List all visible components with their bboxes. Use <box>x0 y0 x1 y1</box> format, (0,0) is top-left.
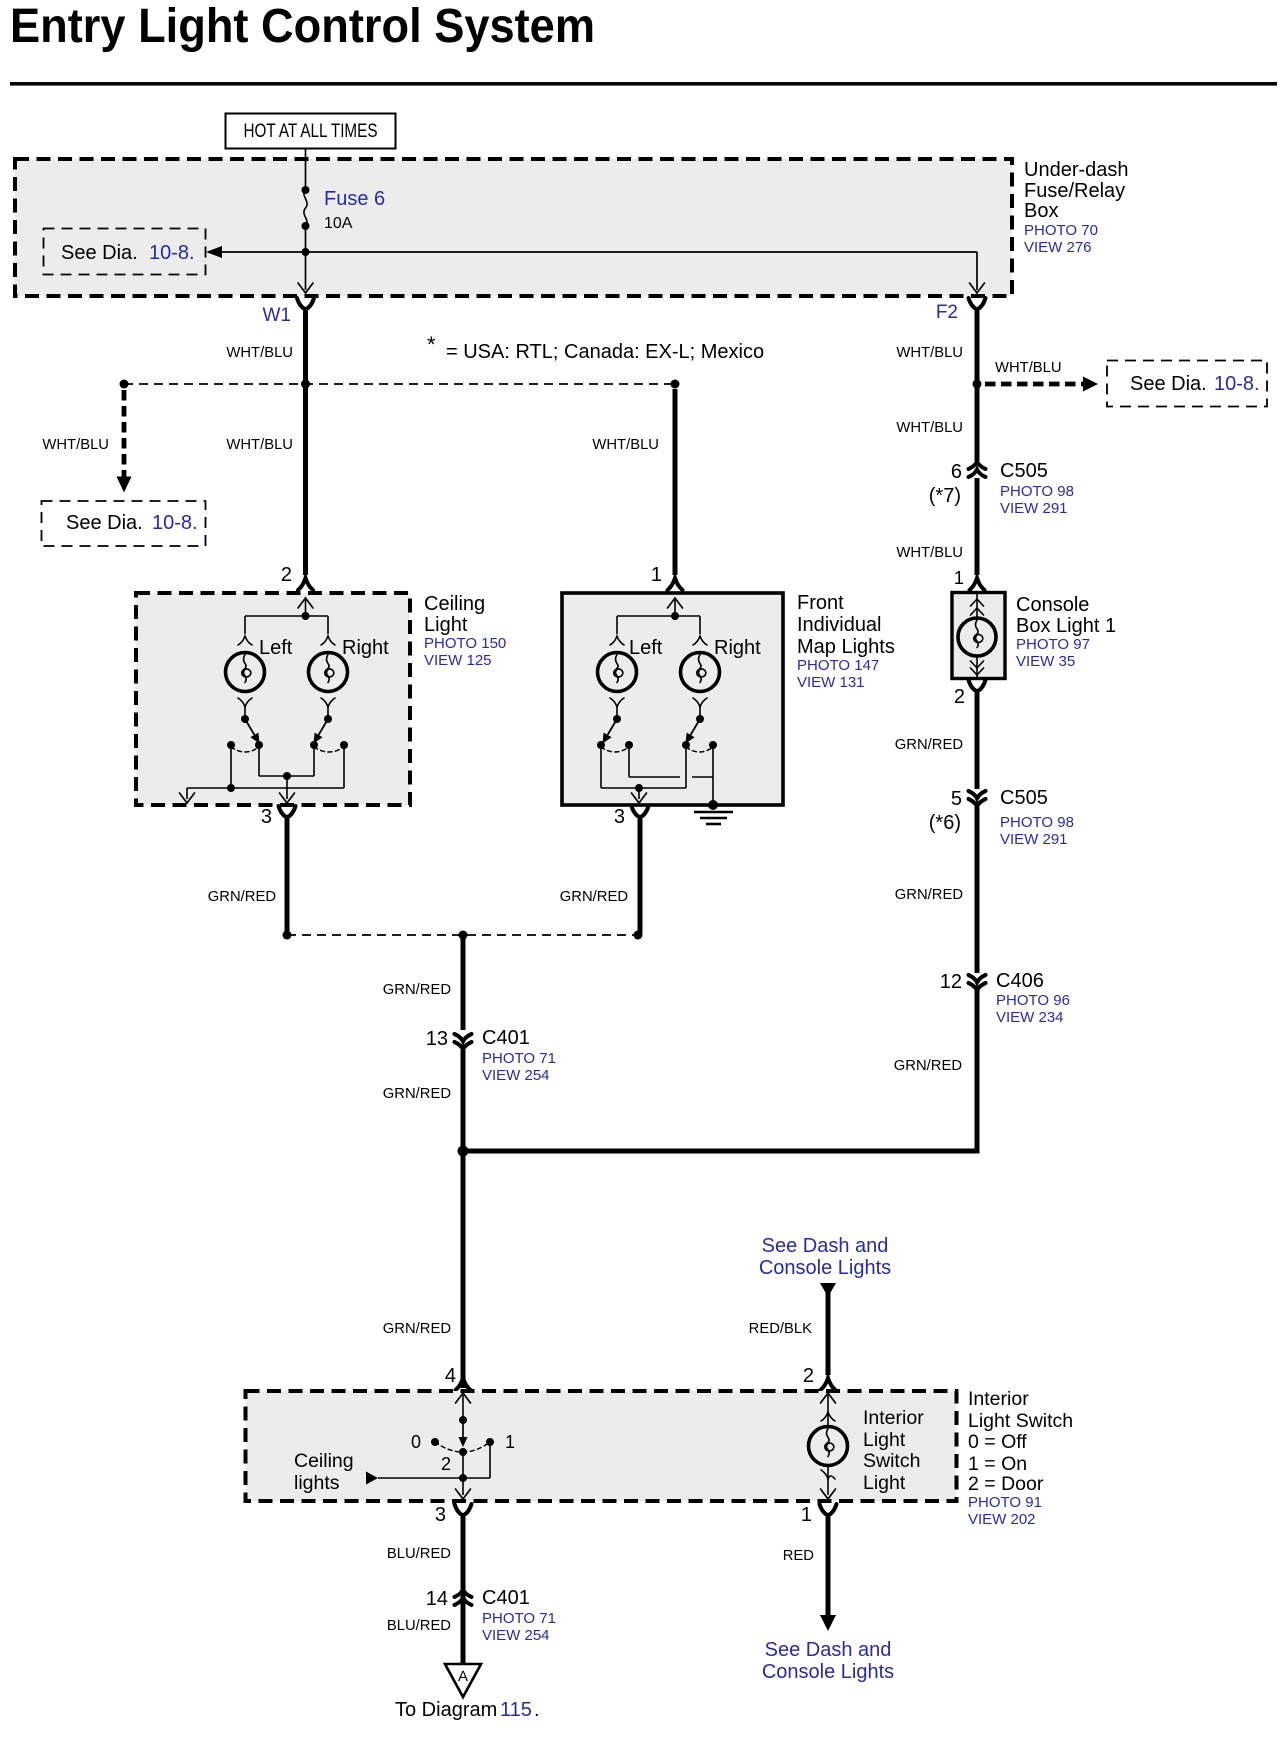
svg-text:Map Lights: Map Lights <box>797 636 895 658</box>
wire F2 to C505 WHT/BLU <box>975 311 980 461</box>
svg-text:C401: C401 <box>482 1587 530 1609</box>
svg-text:A: A <box>458 1668 468 1685</box>
wire C401 to main junction GRN/RED <box>461 1050 466 1388</box>
bulb ceiling left <box>226 653 265 692</box>
svg-text:VIEW 202: VIEW 202 <box>968 1511 1036 1528</box>
title rule <box>10 82 1277 86</box>
connector C406 pin 12 <box>969 975 986 983</box>
bulb console box light <box>958 618 996 656</box>
svg-text:C505: C505 <box>1000 460 1048 482</box>
svg-text:C406: C406 <box>996 970 1044 992</box>
svg-text:1: 1 <box>651 564 662 586</box>
switch contact 0 <box>431 1438 439 1446</box>
svg-text:C505: C505 <box>1000 787 1048 809</box>
svg-text:(*7): (*7) <box>929 485 961 507</box>
svg-text:PHOTO 96: PHOTO 96 <box>996 992 1070 1009</box>
dashed wire to See Dia 10-8 (lower left) <box>122 390 127 477</box>
svg-text:VIEW 125: VIEW 125 <box>424 652 492 669</box>
svg-text:10-8.: 10-8. <box>149 242 195 264</box>
svg-text:WHT/BLU: WHT/BLU <box>995 360 1062 376</box>
dashed junction line <box>124 383 675 385</box>
switch contact 1 <box>486 1438 494 1446</box>
svg-text:Right: Right <box>342 637 389 659</box>
svg-text:.: . <box>534 1699 540 1721</box>
open arrow at box edge W1 <box>298 283 313 293</box>
arrow to See Dash and Console Lights <box>820 1615 836 1631</box>
node ceiling feed bus <box>302 612 310 620</box>
wire map pin 3 GRN/RED <box>638 819 643 933</box>
node map output junction <box>635 784 643 792</box>
open arrow at box edge F2 <box>970 283 985 293</box>
svg-text:1: 1 <box>801 1504 812 1526</box>
svg-text:2: 2 <box>281 564 292 586</box>
node ceiling output junction <box>283 772 291 780</box>
connector C505 pin 5 <box>969 791 986 799</box>
svg-text:Light: Light <box>863 1429 906 1451</box>
pin 2 console box light <box>969 680 986 695</box>
svg-text:WHT/BLU: WHT/BLU <box>42 437 109 453</box>
svg-text:GRN/RED: GRN/RED <box>383 1321 451 1337</box>
switch map right <box>696 715 704 723</box>
svg-text:5: 5 <box>951 788 962 810</box>
ceiling light enclosure <box>136 593 410 805</box>
svg-text:1: 1 <box>505 1432 515 1452</box>
svg-text:PHOTO 91: PHOTO 91 <box>968 1494 1042 1511</box>
wire map inner contacts to ground <box>628 745 630 777</box>
svg-text:VIEW 35: VIEW 35 <box>1016 653 1075 670</box>
svg-text:See Dash and: See Dash and <box>762 1235 889 1257</box>
wire pin 1 RED <box>826 1517 831 1616</box>
svg-text:Light Switch: Light Switch <box>968 1410 1073 1432</box>
dashed junction line ceiling/map outputs <box>287 934 638 936</box>
off-page connector A <box>445 1664 481 1697</box>
wire C505 to console box light pin 1 WHT/BLU <box>975 478 980 575</box>
svg-text:14: 14 <box>426 1588 448 1610</box>
node center output <box>459 931 468 940</box>
svg-text:10-8.: 10-8. <box>152 512 198 534</box>
wire down to F2 terminal <box>976 252 978 290</box>
wire from HOT AT ALL TIMES to fuse <box>305 149 307 188</box>
wire C406 down and left to main junction GRN/RED <box>461 990 978 1151</box>
wire contact 2 to output <box>462 1452 464 1478</box>
fuse F6 10A <box>302 186 310 194</box>
svg-text:13: 13 <box>426 1028 448 1050</box>
svg-text:See Dash and: See Dash and <box>765 1639 892 1661</box>
wire console pin2 to C505 GRN/RED <box>975 693 980 789</box>
svg-text:Interior: Interior <box>863 1407 924 1429</box>
ground map lights <box>708 800 718 810</box>
svg-text:3: 3 <box>614 806 625 828</box>
door switch ceiling right <box>324 715 332 723</box>
see-dia reference box 1 <box>44 229 206 275</box>
switch feed arrow from pin 4 <box>456 1393 471 1403</box>
svg-text:PHOTO 147: PHOTO 147 <box>797 657 879 674</box>
svg-text:VIEW 276: VIEW 276 <box>1024 239 1092 256</box>
wire junction to C401 GRN/RED <box>461 935 466 1030</box>
svg-text:See Dia.: See Dia. <box>1130 373 1207 395</box>
svg-text:GRN/RED: GRN/RED <box>383 982 451 998</box>
svg-text:VIEW 131: VIEW 131 <box>797 674 865 691</box>
node map feed bus <box>671 612 679 620</box>
svg-text:WHT/BLU: WHT/BLU <box>896 345 963 361</box>
svg-text:10A: 10A <box>324 215 353 232</box>
node left branch <box>120 380 129 389</box>
wire contact 1 to output <box>489 1442 491 1478</box>
bulb interior light switch light <box>809 1427 848 1466</box>
svg-text:GRN/RED: GRN/RED <box>383 1086 451 1102</box>
svg-text:Box Light 1: Box Light 1 <box>1016 615 1116 637</box>
wire to map lights pin 1 WHT/BLU <box>673 389 678 575</box>
door switch ceiling left <box>241 715 249 723</box>
svg-text:6: 6 <box>951 461 962 483</box>
svg-text:Fuse/Relay: Fuse/Relay <box>1024 180 1125 202</box>
svg-text:GRN/RED: GRN/RED <box>208 889 276 905</box>
connector C401 pin 14 <box>455 1590 472 1598</box>
svg-text:Individual: Individual <box>797 614 882 636</box>
svg-text:10-8.: 10-8. <box>1214 373 1260 395</box>
wire pin 3 BLU/RED <box>461 1517 466 1663</box>
wire W1 to ceiling light pin 2 WHT/BLU <box>303 311 308 575</box>
svg-text:VIEW 254: VIEW 254 <box>482 1627 550 1644</box>
svg-text:Light: Light <box>424 614 468 636</box>
svg-text:PHOTO 70: PHOTO 70 <box>1024 222 1098 239</box>
node F2 dashed junction <box>973 380 982 389</box>
svg-text:W1: W1 <box>263 305 292 326</box>
node map output <box>634 931 643 940</box>
svg-text:PHOTO 98: PHOTO 98 <box>1000 814 1074 831</box>
bulb map left <box>598 653 637 692</box>
svg-text:0: 0 <box>411 1432 421 1452</box>
see-dia reference box 3 <box>1107 361 1267 407</box>
svg-text:WHT/BLU: WHT/BLU <box>896 420 963 436</box>
svg-text:Console Lights: Console Lights <box>762 1661 894 1683</box>
console lamp wiring <box>976 594 978 618</box>
svg-text:C401: C401 <box>482 1027 530 1049</box>
svg-text:F2: F2 <box>936 302 958 323</box>
map feed arrow from pin 1 <box>668 598 683 608</box>
svg-text:GRN/RED: GRN/RED <box>895 737 963 753</box>
under-dash fuse/relay box <box>15 159 1012 296</box>
wire RED/BLK to pin 2 <box>826 1293 831 1375</box>
front individual map lights enclosure <box>562 593 783 805</box>
svg-text:0 = Off: 0 = Off <box>968 1431 1027 1453</box>
svg-text:GRN/RED: GRN/RED <box>895 887 963 903</box>
switch arc <box>435 1442 490 1452</box>
svg-text:Console: Console <box>1016 594 1089 616</box>
wire C505 to C406 GRN/RED <box>975 807 980 973</box>
svg-text:2: 2 <box>954 686 965 708</box>
svg-text:PHOTO 71: PHOTO 71 <box>482 1050 556 1067</box>
svg-text:3: 3 <box>261 806 272 828</box>
svg-text:2 = Door: 2 = Door <box>968 1473 1044 1495</box>
svg-text:Interior: Interior <box>968 1388 1029 1410</box>
svg-text:See Dia.: See Dia. <box>66 512 143 534</box>
svg-text:*: * <box>427 332 436 357</box>
connector C505 pin 6 <box>969 462 986 470</box>
svg-text:VIEW 291: VIEW 291 <box>1000 500 1068 517</box>
svg-text:Entry Light Control System: Entry Light Control System <box>10 0 595 53</box>
dashed wire to See Dia 10-8 (right) <box>985 382 1084 387</box>
switch contact 2 <box>459 1448 467 1456</box>
svg-text:GRN/RED: GRN/RED <box>894 1058 962 1074</box>
svg-text:RED/BLK: RED/BLK <box>749 1321 812 1337</box>
svg-text:WHT/BLU: WHT/BLU <box>896 545 963 561</box>
svg-text:Ceiling: Ceiling <box>294 1450 354 1472</box>
svg-text:2: 2 <box>803 1365 814 1387</box>
svg-text:PHOTO 71: PHOTO 71 <box>482 1610 556 1627</box>
label HOT AT ALL TIMES <box>226 114 396 149</box>
svg-text:WHT/BLU: WHT/BLU <box>226 437 293 453</box>
svg-text:Right: Right <box>714 637 761 659</box>
svg-text:Left: Left <box>259 637 293 659</box>
wire fuse junction to F2 branch <box>222 251 977 253</box>
node switch output junction <box>459 1474 467 1482</box>
svg-text:12: 12 <box>940 971 962 993</box>
svg-text:PHOTO 97: PHOTO 97 <box>1016 636 1090 653</box>
svg-text:Left: Left <box>629 637 663 659</box>
svg-text:Light: Light <box>863 1472 906 1494</box>
svg-text:1 = On: 1 = On <box>968 1453 1027 1475</box>
wire map outer contacts to pin 3 <box>600 745 602 788</box>
svg-text:lights: lights <box>294 1472 340 1494</box>
wire to right map bulb <box>699 616 701 634</box>
wire ceiling outer contacts to box edge <box>230 745 232 788</box>
svg-text:See Dia.: See Dia. <box>61 242 138 264</box>
switch map left <box>613 715 621 723</box>
svg-text:To Diagram: To Diagram <box>395 1699 497 1721</box>
svg-text:Box: Box <box>1024 200 1058 222</box>
connector C401 pin 13 <box>455 1034 472 1042</box>
svg-text:RED: RED <box>783 1548 814 1564</box>
svg-text:VIEW 291: VIEW 291 <box>1000 831 1068 848</box>
svg-text:VIEW 254: VIEW 254 <box>482 1067 550 1084</box>
svg-text:PHOTO 150: PHOTO 150 <box>424 635 506 652</box>
wire fuse to W1 terminal <box>305 226 307 290</box>
svg-text:Front: Front <box>797 592 844 614</box>
svg-text:PHOTO 98: PHOTO 98 <box>1000 483 1074 500</box>
svg-text:WHT/BLU: WHT/BLU <box>592 437 659 453</box>
node switch common <box>459 1416 467 1424</box>
svg-text:Console Lights: Console Lights <box>759 1257 891 1279</box>
svg-text:4: 4 <box>445 1365 456 1387</box>
node fuse output junction <box>302 248 310 256</box>
node map-light branch <box>671 380 680 389</box>
wire to left map bulb <box>616 616 618 634</box>
node ceiling output <box>283 931 292 940</box>
interior light switch enclosure <box>246 1391 957 1501</box>
svg-text:3: 3 <box>435 1504 446 1526</box>
svg-text:BLU/RED: BLU/RED <box>387 1546 451 1562</box>
bulb ceiling right <box>309 653 348 692</box>
wire switch output to pin 3 <box>462 1478 464 1495</box>
node ceiling outer bus junction <box>227 784 235 792</box>
svg-text:Fuse 6: Fuse 6 <box>324 188 385 210</box>
svg-text:Under-dash: Under-dash <box>1024 159 1129 181</box>
node main junction <box>458 1146 469 1157</box>
svg-text:2: 2 <box>441 1454 451 1474</box>
bulb map right <box>681 653 720 692</box>
svg-text:WHT/BLU: WHT/BLU <box>226 345 293 361</box>
svg-text:BLU/RED: BLU/RED <box>387 1618 451 1634</box>
ceiling feed arrow from pin 2 <box>298 598 313 608</box>
svg-text:115: 115 <box>500 1699 532 1721</box>
svg-text:HOT AT ALL TIMES: HOT AT ALL TIMES <box>244 121 378 142</box>
svg-text:Switch: Switch <box>863 1450 920 1472</box>
arrow to See Dia 10-8 (left) <box>206 246 222 258</box>
wire ceiling pin 3 GRN/RED <box>285 819 290 933</box>
svg-text:= USA: RTL; Canada: EX-L; Mexi: = USA: RTL; Canada: EX-L; Mexico <box>446 341 764 363</box>
interior light switch light wiring <box>821 1393 836 1403</box>
rotary switch arm <box>462 1420 464 1438</box>
svg-text:GRN/RED: GRN/RED <box>560 889 628 905</box>
see-dia reference box 2 <box>42 501 206 546</box>
wire to left bulb <box>244 616 246 634</box>
wire to right bulb <box>327 616 329 634</box>
svg-text:VIEW 234: VIEW 234 <box>996 1009 1064 1026</box>
wire ceiling inner contacts to pin 3 <box>258 745 260 776</box>
svg-text:Ceiling: Ceiling <box>424 593 485 615</box>
node W1 dashed junction <box>301 380 310 389</box>
console box light 1 enclosure <box>952 593 1005 679</box>
svg-text:1: 1 <box>954 567 964 588</box>
svg-text:(*6): (*6) <box>929 812 961 834</box>
